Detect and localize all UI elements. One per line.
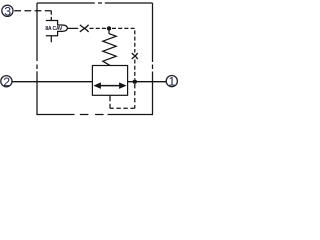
svg-text:1: 1	[168, 75, 175, 89]
svg-text:3: 3	[4, 4, 11, 18]
svg-text:8A CAV: 8A CAV	[45, 26, 63, 32]
svg-text:2: 2	[3, 75, 10, 89]
